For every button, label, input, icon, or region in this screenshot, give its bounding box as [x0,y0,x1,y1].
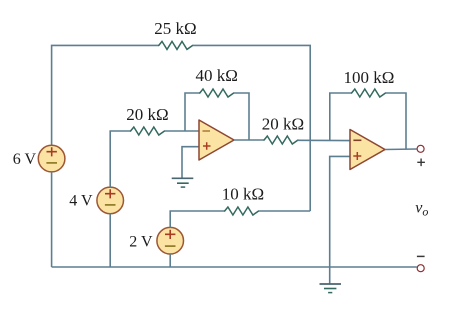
wire: 4V bottom to rail [109,214,111,268]
node: output terminal + [417,145,424,152]
voltage source 2V [157,227,184,254]
svg-text:4 V: 4 V [69,193,93,210]
wire: 4V top up to 20k input wire [110,131,130,187]
wire: U2 output to terminal [385,148,417,151]
svg-text:25 kΩ: 25 kΩ [154,19,196,38]
label + (output polarity) [417,159,425,167]
ground (below bottom rail) [320,284,342,293]
node: output terminal - [417,265,424,272]
resistor 20 kOhm (between op-amps) [264,136,298,144]
wire: 2V top to 10k wire [170,211,225,228]
label - (output polarity) [417,255,425,257]
svg-text:20 kΩ: 20 kΩ [262,115,304,134]
svg-text:2 V: 2 V [129,234,153,251]
svg-text:10 kΩ: 10 kΩ [222,185,264,204]
wire: top net from 6V to 25k [52,45,159,145]
resistor 25 kOhm [159,41,193,49]
resistor 100 kOhm (feedback U2) [352,89,386,97]
wire: 20k to inverting input of U1 [165,130,201,132]
resistor 20 kOhm (input of op-amp U1) [131,127,165,135]
wire: non-inverting input of U1 to ground [182,147,200,179]
resistor 40 kOhm (feedback U1) [200,89,234,97]
voltage source 6V [38,145,65,172]
wire: bottom ground rail [52,266,417,268]
svg-text:vo: vo [415,200,428,219]
wire: 25k to vertical x=310 down to 10k node [193,45,311,211]
wire: 40k feedback left vertical [185,93,200,131]
wire: 6V bottom to rail [51,172,53,267]
wire: 40k feedback right vertical to U1 output [234,93,249,140]
wire: non-inverting input of U2 down to ground [330,156,350,284]
wire: 100k feedback right vertical to U2 output [386,93,407,149]
svg-text:6 V: 6 V [13,151,37,168]
svg-text:20 kΩ: 20 kΩ [126,105,168,124]
ground (U1 non-inverting input) [172,178,194,187]
wire: U1 output to 20k [234,139,264,141]
voltage source 4V [97,187,124,214]
wire: 10k to vertical x=310 [259,210,311,212]
svg-text:100 kΩ: 100 kΩ [344,68,395,87]
wire: 2V bottom to rail [169,254,171,267]
wire: 100k feedback left vertical [330,93,352,141]
op-amp U1 [199,120,234,160]
op-amp U2 [350,130,385,170]
wire: 20k to inverting input of U2 [298,139,351,141]
resistor 10 kOhm [225,207,259,215]
svg-text:40 kΩ: 40 kΩ [196,66,238,85]
